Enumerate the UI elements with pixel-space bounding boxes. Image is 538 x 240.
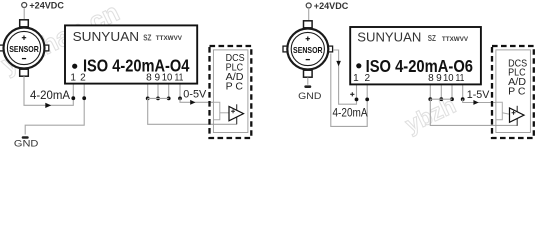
svg-text:1-5V: 1-5V (467, 89, 490, 101)
svg-text:10: 10 (443, 73, 454, 84)
svg-text:9: 9 (436, 73, 442, 84)
svg-text:SZ: SZ (143, 33, 151, 43)
svg-text:P C: P C (226, 81, 243, 92)
svg-text:TTXWVV: TTXWVV (442, 36, 469, 43)
svg-text:2: 2 (80, 73, 86, 84)
svg-text:GND: GND (298, 91, 321, 102)
svg-text:4-20mA: 4-20mA (333, 107, 368, 119)
svg-text:+24VDC: +24VDC (314, 1, 349, 11)
svg-text:10: 10 (162, 73, 173, 84)
svg-text:11: 11 (456, 73, 465, 84)
svg-text:SZ: SZ (428, 33, 436, 43)
svg-text:0-5V: 0-5V (183, 89, 207, 101)
svg-text:1: 1 (70, 73, 76, 84)
svg-text:SENSOR: SENSOR (293, 45, 323, 55)
svg-text:8: 8 (146, 73, 152, 84)
svg-text:11: 11 (175, 73, 184, 84)
svg-text:8: 8 (428, 73, 434, 84)
svg-text:9: 9 (155, 73, 161, 84)
svg-text:+24VDC: +24VDC (29, 1, 64, 11)
svg-text:TTXWVV: TTXWVV (156, 35, 183, 42)
svg-text:SENSOR: SENSOR (9, 44, 39, 54)
svg-text:GND: GND (14, 139, 39, 150)
svg-text:1: 1 (353, 73, 359, 84)
svg-text:P C: P C (508, 86, 525, 97)
svg-text:SUNYUAN: SUNYUAN (357, 30, 421, 44)
svg-text:4-20mA: 4-20mA (30, 88, 70, 102)
svg-text:2: 2 (365, 73, 371, 84)
svg-text:SUNYUAN: SUNYUAN (73, 30, 140, 44)
